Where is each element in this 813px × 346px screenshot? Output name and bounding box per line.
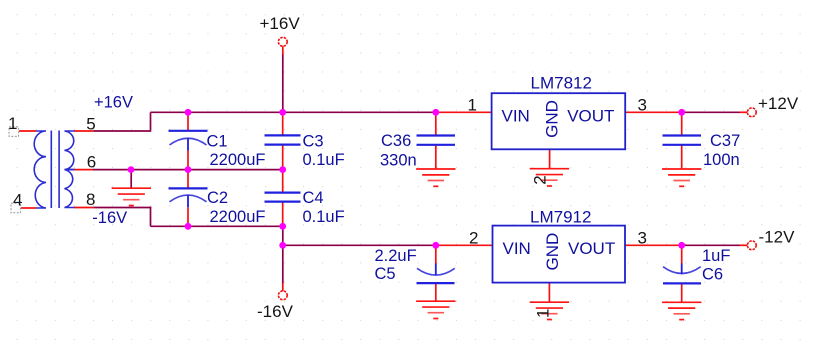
svg-text:-12V: -12V: [759, 228, 796, 247]
svg-text:2200uF: 2200uF: [210, 151, 266, 169]
svg-text:C3: C3: [303, 132, 324, 150]
svg-text:330n: 330n: [380, 151, 417, 169]
svg-text:1: 1: [8, 114, 17, 133]
svg-text:VOUT: VOUT: [568, 239, 615, 258]
svg-text:VIN: VIN: [502, 106, 530, 125]
svg-text:5: 5: [86, 115, 95, 134]
svg-text:LM7912: LM7912: [530, 208, 591, 227]
svg-text:GND: GND: [543, 233, 562, 271]
svg-text:C2: C2: [207, 189, 228, 207]
svg-text:+16V: +16V: [94, 94, 133, 112]
svg-text:3: 3: [638, 95, 647, 114]
svg-text:1uF: 1uF: [702, 247, 730, 265]
svg-text:LM7812: LM7812: [531, 74, 592, 93]
svg-text:0.1uF: 0.1uF: [303, 208, 345, 226]
svg-text:2.2uF: 2.2uF: [375, 247, 417, 265]
svg-text:3: 3: [638, 229, 647, 248]
svg-text:1: 1: [534, 309, 553, 318]
svg-text:GND: GND: [543, 100, 562, 138]
svg-text:0.1uF: 0.1uF: [303, 151, 345, 169]
svg-text:VIN: VIN: [503, 239, 531, 258]
svg-text:+12V: +12V: [758, 94, 799, 113]
svg-text:+16V: +16V: [260, 14, 301, 33]
svg-text:C1: C1: [207, 132, 228, 150]
svg-text:2: 2: [469, 229, 478, 248]
svg-text:2200uF: 2200uF: [210, 208, 266, 226]
svg-text:C5: C5: [375, 265, 396, 283]
svg-text:-16V: -16V: [257, 302, 294, 321]
svg-text:6: 6: [87, 152, 96, 171]
svg-text:4: 4: [13, 190, 22, 209]
svg-text:2: 2: [531, 175, 550, 184]
svg-text:C36: C36: [381, 132, 411, 150]
svg-text:1: 1: [468, 96, 477, 115]
svg-text:100n: 100n: [703, 151, 740, 169]
svg-text:C37: C37: [710, 132, 740, 150]
svg-text:C6: C6: [702, 266, 723, 284]
svg-text:-16V: -16V: [92, 209, 127, 227]
svg-text:8: 8: [86, 190, 95, 209]
svg-text:C4: C4: [303, 189, 324, 207]
svg-text:VOUT: VOUT: [567, 106, 614, 125]
